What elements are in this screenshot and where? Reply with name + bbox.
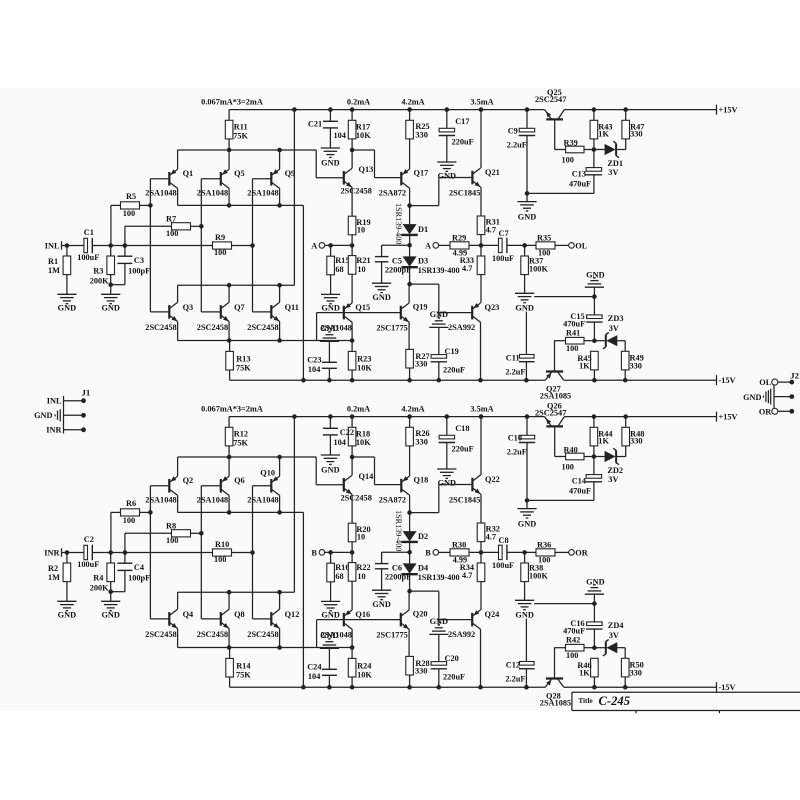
svg-text:C10: C10 [508, 433, 522, 442]
wire emitter [279, 322, 281, 341]
wire collector [351, 629, 353, 647]
wire NPN collector bus [178, 591, 295, 593]
wire [140, 511, 151, 513]
resistor R37 [521, 256, 529, 275]
transistor Q5 (2SA1048 PNP) [220, 172, 222, 186]
junction [445, 107, 450, 112]
svg-text:J1: J1 [82, 387, 91, 397]
node R3/C3 [108, 282, 113, 287]
wire [593, 297, 595, 315]
wire [524, 275, 526, 294]
wire base [554, 426, 556, 456]
wire emitter [279, 150, 281, 169]
wire [507, 551, 536, 553]
J2 shield marks [762, 396, 764, 398]
svg-text:10: 10 [357, 533, 365, 542]
transistor Q11 (2SC2458 NPN) [270, 305, 272, 319]
svg-text:330: 330 [415, 438, 427, 447]
wire [439, 484, 473, 486]
wire [409, 139, 411, 169]
svg-text:2SC2458: 2SC2458 [145, 630, 176, 639]
svg-text:R24: R24 [357, 661, 371, 670]
wire base [253, 311, 272, 313]
resistor R45 [591, 351, 599, 370]
resistor R16 [327, 563, 335, 582]
wire [525, 362, 527, 381]
svg-text:C22: C22 [340, 428, 354, 437]
svg-text:2SA992: 2SA992 [448, 630, 475, 639]
svg-text:2SC2458: 2SC2458 [247, 323, 278, 332]
wire emitter [480, 187, 482, 216]
wire [228, 417, 230, 428]
wire [351, 677, 353, 687]
wire -15V rail right segment [564, 379, 717, 381]
wire [409, 245, 411, 256]
wire [507, 244, 536, 246]
junction [623, 107, 628, 112]
svg-text:4.2mA: 4.2mA [401, 98, 424, 107]
wire [593, 446, 595, 457]
node base column 2 [199, 531, 204, 536]
svg-text:100: 100 [214, 248, 226, 257]
svg-text:GND: GND [34, 411, 52, 420]
junction [437, 378, 442, 383]
wire emitter [279, 629, 281, 648]
resistor R19 [348, 216, 356, 235]
junction [227, 338, 232, 343]
wire [439, 551, 450, 553]
svg-text:3V: 3V [608, 168, 618, 177]
wire [375, 177, 402, 179]
svg-text:R13: R13 [236, 354, 250, 363]
transistor Q2 (2SA1048 PNP) [168, 479, 170, 493]
wire [625, 110, 627, 121]
ground [372, 589, 391, 591]
capacitor C21 [323, 120, 338, 122]
svg-text:R2: R2 [48, 564, 58, 573]
svg-text:Q21: Q21 [485, 168, 500, 177]
resistor R22 [348, 563, 356, 582]
wire [593, 139, 595, 150]
svg-text:2SA872: 2SA872 [379, 188, 406, 197]
svg-text:GND: GND [321, 159, 339, 168]
svg-text:D2: D2 [418, 532, 428, 541]
node input/R2 [65, 550, 70, 555]
wire [584, 456, 594, 458]
junction [277, 338, 282, 343]
wire [480, 235, 482, 246]
wire [480, 542, 482, 553]
svg-text:C24: C24 [307, 663, 321, 672]
svg-text:68: 68 [335, 265, 343, 274]
wire [524, 245, 526, 256]
junction [277, 148, 282, 153]
svg-text:R3: R3 [93, 267, 103, 276]
wire NPN collector bus [178, 284, 295, 286]
wire [316, 620, 318, 648]
wire [351, 581, 353, 610]
svg-text:GND: GND [438, 172, 456, 181]
resistor R27 [406, 349, 414, 368]
svg-text:3.5mA: 3.5mA [470, 98, 493, 107]
pad [789, 380, 794, 385]
wire -15V rail right segment [564, 686, 717, 688]
svg-text:2200pF: 2200pF [385, 266, 411, 275]
wire [409, 206, 411, 225]
junction [292, 414, 297, 419]
wire [524, 582, 526, 601]
svg-text:C14: C14 [572, 477, 586, 486]
wire [524, 552, 526, 563]
node C3 tap [123, 243, 128, 248]
capacitor C22 [323, 427, 338, 429]
svg-text:100K: 100K [529, 571, 548, 580]
capacitor C6 [375, 563, 389, 565]
svg-text:R22: R22 [356, 563, 370, 572]
wire input [62, 245, 86, 247]
wire [351, 139, 353, 150]
wire [382, 551, 410, 553]
svg-text:2SC2458: 2SC2458 [145, 323, 176, 332]
wire [554, 340, 565, 342]
junction [525, 107, 530, 112]
wire [316, 313, 318, 341]
svg-text:R15: R15 [335, 256, 349, 265]
svg-text:4.7: 4.7 [462, 264, 472, 273]
terminal A flag [319, 243, 325, 249]
junction [592, 378, 597, 383]
wire [409, 235, 411, 245]
wire [593, 604, 595, 622]
junction [277, 645, 282, 650]
ground [321, 147, 340, 149]
svg-text:470uF: 470uF [563, 626, 585, 635]
svg-text:1K: 1K [598, 437, 609, 446]
svg-text:Q2: Q2 [183, 476, 194, 485]
svg-text:104: 104 [308, 365, 320, 374]
wire [351, 552, 353, 562]
node D1/D3 [407, 243, 412, 248]
transistor Q10 (2SA1048 PNP) [270, 479, 272, 493]
wire [409, 446, 411, 476]
wire [124, 226, 126, 245]
wire [480, 582, 482, 610]
wire [125, 225, 172, 227]
svg-text:4.7: 4.7 [486, 225, 496, 234]
wire [617, 340, 625, 342]
svg-text:GND: GND [515, 610, 533, 619]
svg-text:10K: 10K [357, 670, 372, 679]
wire collector [408, 284, 410, 303]
resistor R34 [477, 563, 485, 582]
ground (inverted) above C19 [438, 317, 441, 319]
svg-text:Q13: Q13 [359, 165, 374, 174]
wire input line [92, 245, 212, 247]
wire [228, 446, 230, 457]
svg-text:2SC2458: 2SC2458 [247, 630, 278, 639]
svg-text:4.7: 4.7 [486, 532, 496, 541]
wire collector [351, 322, 353, 340]
resistor R50 [621, 658, 629, 677]
svg-text:R11: R11 [234, 123, 248, 132]
svg-text:2SC2458: 2SC2458 [197, 630, 228, 639]
wire base [201, 485, 221, 487]
wire emitter [228, 150, 230, 169]
svg-text:0.2mA: 0.2mA [347, 97, 370, 106]
ground [437, 161, 456, 163]
svg-text:2SC2458: 2SC2458 [197, 323, 228, 332]
svg-text:Q3: Q3 [183, 303, 194, 312]
resistor R33 [477, 256, 485, 275]
wire bus to +rail [293, 417, 295, 593]
junction [227, 510, 232, 515]
junction [525, 414, 530, 419]
wire [329, 417, 331, 429]
diode D2 [403, 531, 417, 541]
wire collector [228, 188, 230, 205]
svg-text:220uF: 220uF [452, 445, 474, 454]
node base column 2 [199, 224, 204, 229]
capacitor C5 [375, 256, 389, 258]
wire [66, 553, 68, 564]
junction [524, 685, 529, 690]
svg-text:B: B [425, 549, 431, 558]
node R4 tap [108, 550, 113, 555]
transistor Q25 (2SC2547 NPN) [546, 118, 563, 120]
svg-text:GND: GND [372, 600, 390, 609]
wire [409, 268, 411, 285]
capacitor C13 [586, 168, 602, 172]
wire base [317, 619, 344, 621]
svg-text:200K: 200K [90, 277, 109, 286]
ground [437, 468, 456, 470]
wire [438, 284, 440, 319]
svg-text:GND: GND [743, 393, 761, 402]
wire [527, 499, 594, 501]
resistor R25 [406, 120, 414, 139]
wire [410, 512, 439, 514]
svg-text:Q22: Q22 [485, 475, 500, 484]
junction [592, 294, 597, 299]
wire [381, 552, 383, 563]
svg-text:10: 10 [357, 572, 365, 581]
wire Q23 base [439, 312, 472, 314]
capacitor C19 [431, 355, 447, 359]
wire [374, 150, 376, 178]
svg-text:220uF: 220uF [443, 672, 465, 681]
svg-text:2SA1048: 2SA1048 [247, 495, 278, 504]
node bias ZD4 [592, 645, 597, 650]
wire collector [279, 188, 281, 205]
wire [111, 204, 121, 206]
resistor R5 [121, 202, 140, 209]
pin INR of J1 [64, 429, 84, 431]
resistor R18 [348, 427, 356, 446]
svg-text:10K: 10K [356, 438, 371, 447]
svg-text:R9: R9 [215, 233, 225, 242]
transistor Q26 (2SC2547 NPN) [546, 425, 563, 427]
ground [321, 293, 340, 295]
wire [526, 136, 528, 194]
wire base bus to Q19 [344, 312, 401, 314]
svg-text:R6: R6 [126, 499, 136, 508]
wire input line [92, 552, 212, 554]
wire [110, 205, 112, 245]
svg-text:2SC1775: 2SC1775 [376, 324, 407, 333]
wire [124, 533, 126, 552]
svg-text:100uF: 100uF [77, 560, 99, 569]
svg-text:Q11: Q11 [285, 303, 299, 312]
svg-text:100uF: 100uF [492, 561, 514, 570]
junction [407, 378, 412, 383]
wire [124, 263, 126, 284]
wire emitter [480, 494, 482, 523]
wire [555, 551, 569, 553]
junction [277, 203, 282, 208]
node diode chain top [407, 203, 412, 208]
svg-text:1K: 1K [598, 130, 609, 139]
wire [410, 590, 439, 592]
wire collector [480, 417, 482, 475]
wire NPN emitter bus [178, 340, 353, 342]
connector J2 [773, 385, 775, 408]
transistor Q18 (2SA872 PNP) [400, 479, 402, 493]
transistor Q22 (2SC1845 NPN) [471, 478, 473, 492]
wire [381, 569, 383, 590]
wire [228, 139, 230, 150]
wire [232, 552, 253, 554]
transistor Q1 (2SA1048 PNP) [168, 172, 170, 186]
wire [110, 512, 112, 552]
wire emitter [177, 150, 179, 169]
wire [625, 417, 627, 428]
wire collector [177, 188, 179, 205]
ground (inverted) above C24 [328, 638, 331, 640]
capacitor C8 [499, 545, 503, 559]
wire [593, 110, 595, 121]
capacitor C17 [439, 128, 455, 132]
resistor R23 [348, 351, 356, 370]
svg-text:+15V: +15V [719, 412, 738, 421]
svg-text:200K: 200K [90, 584, 109, 593]
ground [101, 293, 120, 295]
wire [439, 177, 473, 179]
svg-text:D3: D3 [418, 256, 428, 265]
svg-text:C9: C9 [508, 126, 518, 135]
svg-text:1K: 1K [579, 362, 590, 371]
junction [327, 378, 332, 383]
transistor Q15 (2SA1048 PNP) [343, 306, 345, 320]
wire [124, 246, 126, 257]
capacitor C24 [322, 668, 337, 670]
ground (inverted) above C20 [438, 624, 441, 626]
wire [410, 205, 439, 207]
resistor R3 [107, 256, 115, 275]
wire collector [408, 591, 410, 610]
wire [329, 435, 331, 455]
junction [623, 685, 628, 690]
svg-text:ZD4: ZD4 [608, 621, 624, 630]
capacitor C15 [587, 315, 603, 319]
node Q13 collector [350, 148, 355, 153]
junction [328, 414, 333, 419]
wire [617, 456, 626, 458]
transistor Q6 (2SA1048 PNP) [220, 479, 222, 493]
wire [469, 551, 500, 553]
+15V terminal tick [716, 105, 718, 115]
node D2/D4 [407, 550, 412, 555]
junction [479, 107, 484, 112]
resistor R4 [107, 563, 115, 582]
wire [438, 634, 440, 661]
wire [325, 244, 352, 246]
svg-text:Q4: Q4 [183, 610, 194, 619]
wire [593, 322, 595, 341]
wire collector [480, 629, 482, 687]
resistor R20 [348, 523, 356, 542]
wire [594, 456, 605, 458]
resistor R32 [477, 523, 485, 542]
svg-text:330: 330 [415, 667, 427, 676]
svg-text:2SA872: 2SA872 [379, 495, 406, 504]
wire base [554, 341, 556, 372]
wire [124, 570, 126, 591]
transistor Q20 (2SC1775 NPN) [400, 613, 402, 627]
wire [593, 594, 595, 603]
wire [351, 446, 353, 457]
svg-text:R23: R23 [357, 354, 371, 363]
resistor R38 [521, 563, 529, 582]
wire [330, 245, 332, 256]
wire [328, 675, 330, 687]
wire base [201, 618, 221, 620]
svg-text:Q7: Q7 [234, 303, 245, 312]
node bias ZD2 [592, 454, 597, 459]
svg-text:2SA1048: 2SA1048 [197, 188, 228, 197]
wire [110, 275, 112, 295]
node Q14 collector [350, 455, 355, 460]
svg-text:R36: R36 [537, 541, 551, 550]
svg-text:Q9: Q9 [285, 169, 296, 178]
wire [438, 362, 440, 380]
wire [229, 370, 231, 380]
svg-text:100: 100 [562, 156, 574, 165]
wire [624, 370, 626, 380]
svg-text:104: 104 [334, 438, 346, 447]
svg-text:D1: D1 [418, 225, 428, 234]
ground [57, 600, 76, 602]
wire [330, 275, 332, 295]
junction [227, 455, 232, 460]
svg-text:2.2uF: 2.2uF [507, 140, 527, 149]
wire [66, 246, 68, 257]
junction [524, 378, 529, 383]
node base column 3 [250, 243, 255, 248]
wire +15V rail (L channel) [229, 109, 545, 111]
svg-text:GND: GND [101, 304, 119, 313]
-15V terminal tick [716, 375, 718, 385]
resistor R28 [406, 656, 414, 675]
transistor Q9 (2SA1048 PNP) [270, 172, 272, 186]
junction [407, 685, 412, 690]
svg-text:GND: GND [518, 212, 536, 221]
ground [517, 201, 536, 203]
resistor R39 [566, 146, 584, 153]
svg-text:R41: R41 [566, 329, 580, 338]
svg-text:75K: 75K [233, 438, 248, 447]
resistor R9 [213, 242, 232, 249]
junction [350, 107, 355, 112]
